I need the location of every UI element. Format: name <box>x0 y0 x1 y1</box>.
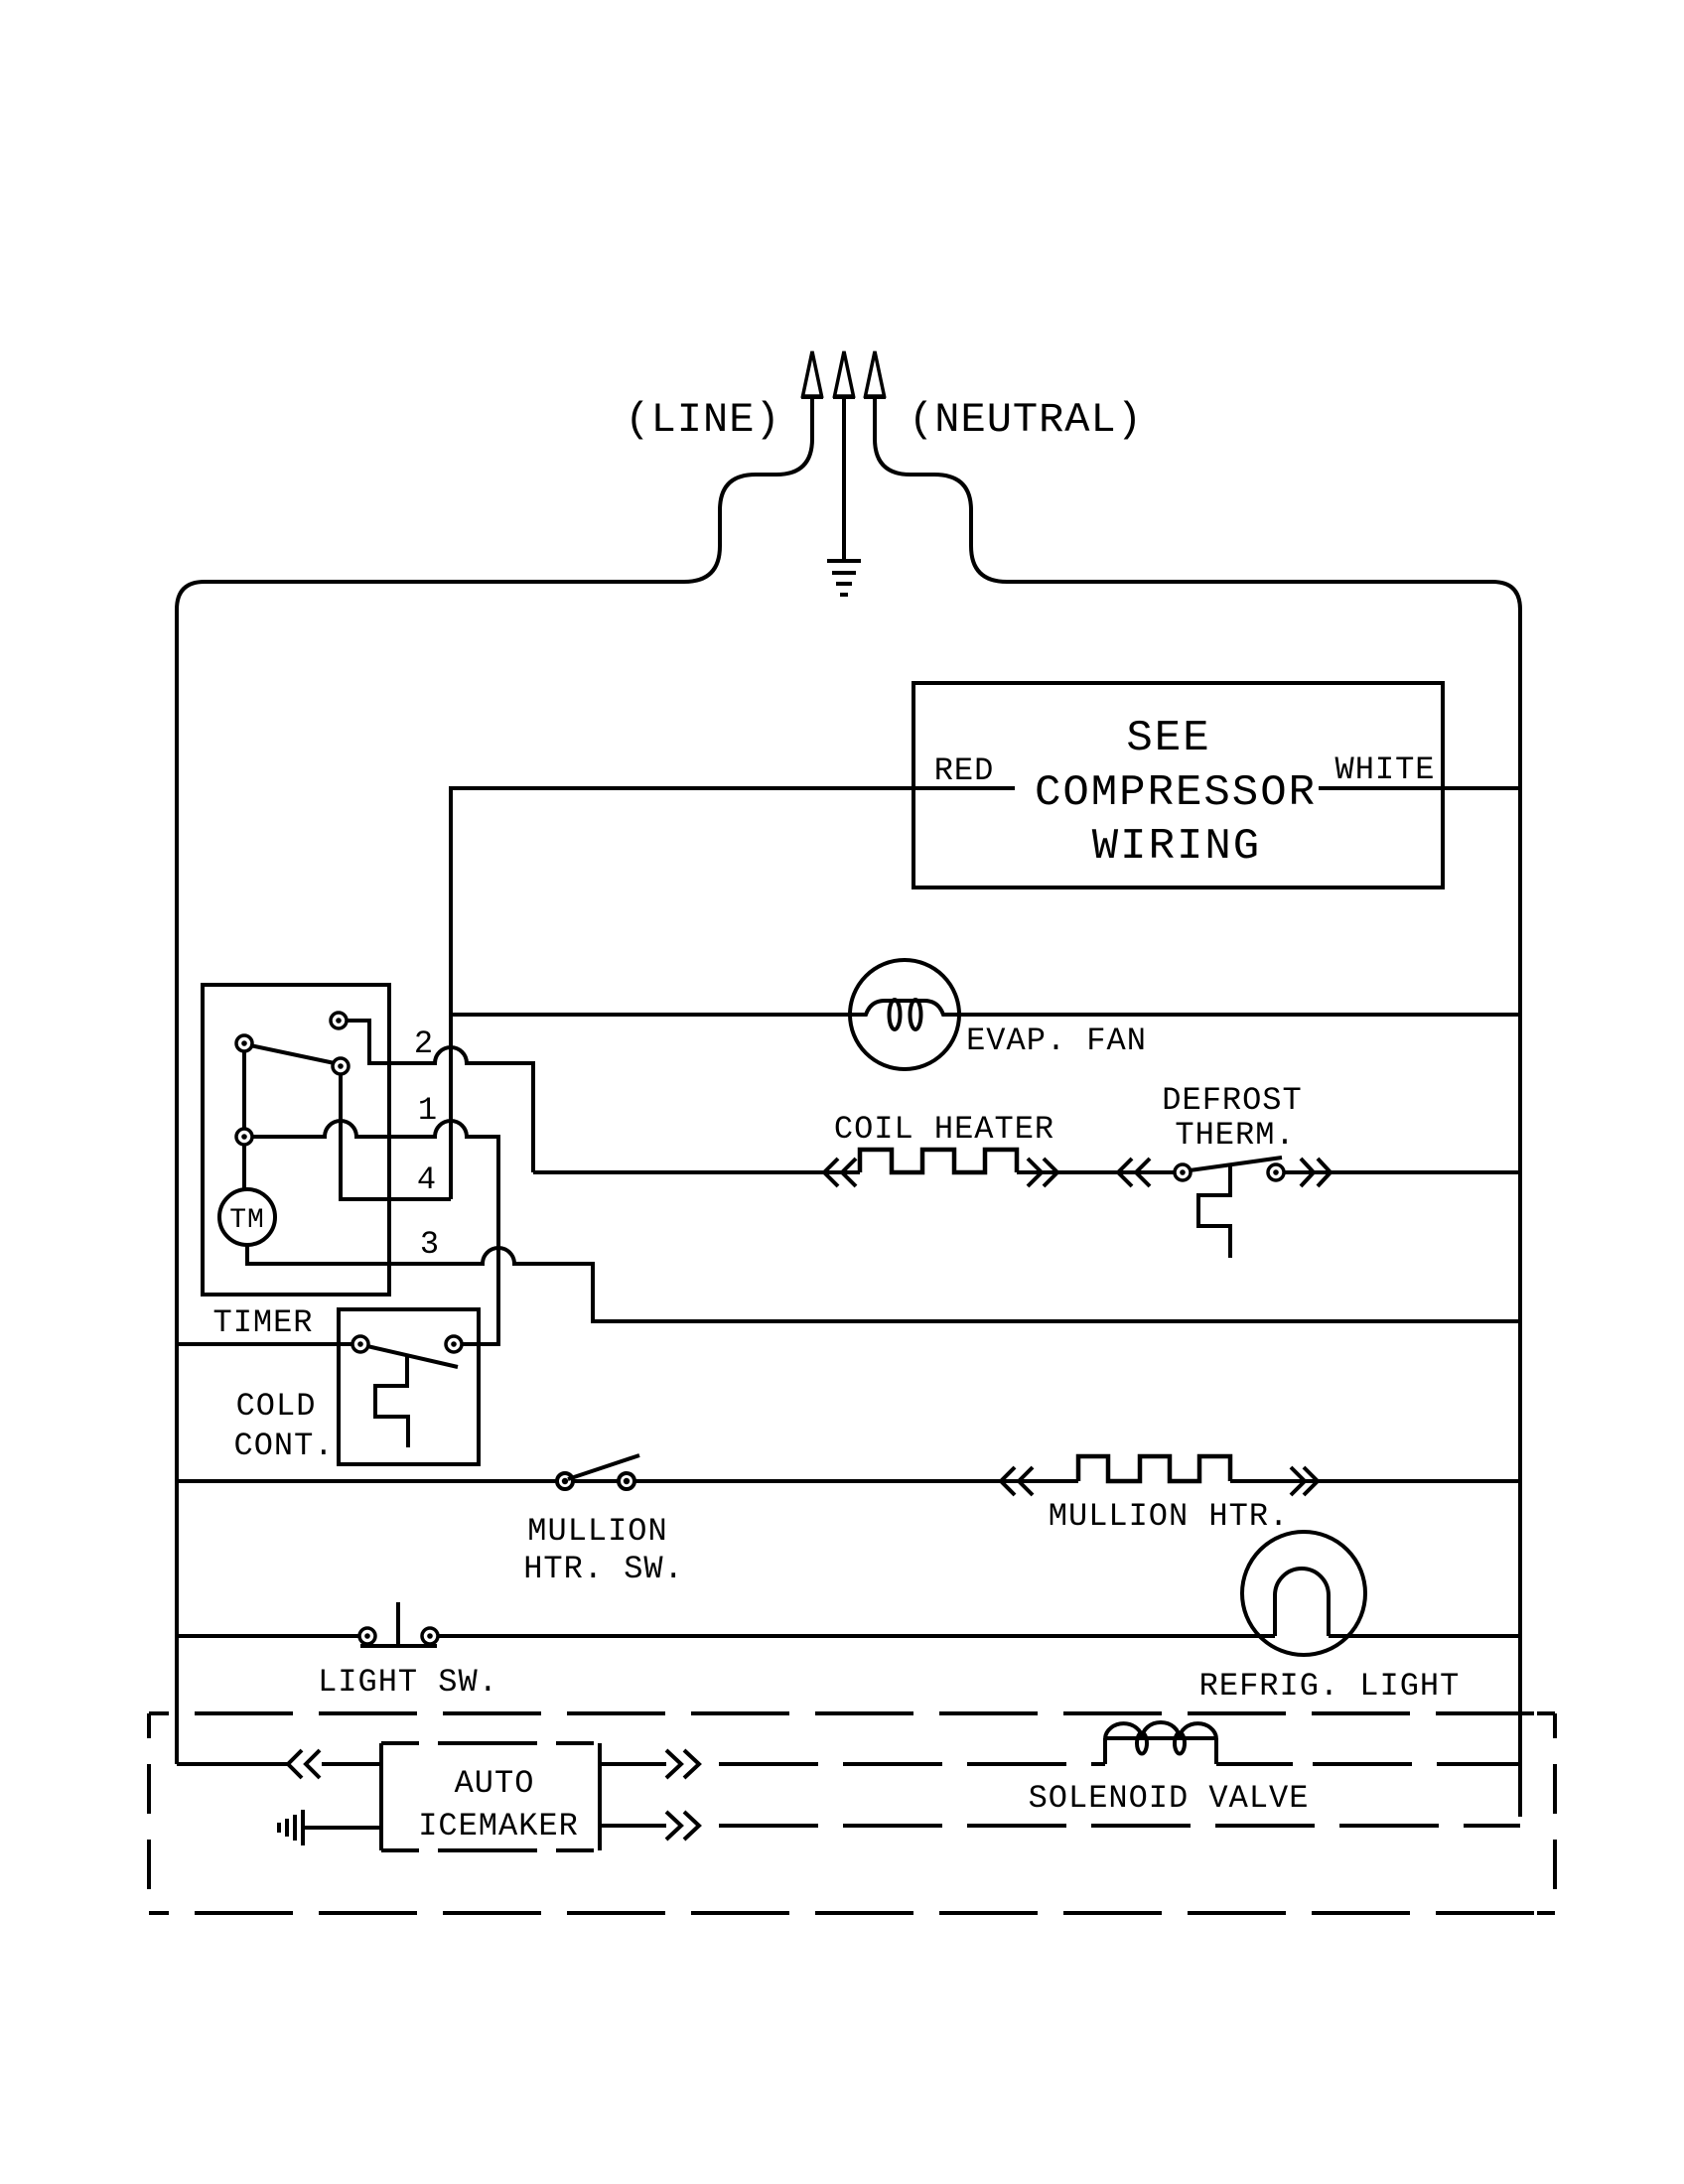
svg-text:3: 3 <box>420 1226 440 1263</box>
wire: defrost therm to right border <box>1284 1170 1520 1174</box>
svg-text:WHITE: WHITE <box>1334 751 1435 788</box>
svg-text:COMPRESSOR: COMPRESSOR <box>1035 768 1317 818</box>
wire: timer left terminals to timer motor <box>242 1051 246 1189</box>
svg-text:COLD: COLD <box>236 1388 317 1425</box>
mullion heater switch terminal right <box>619 1473 634 1489</box>
cold control terminal right <box>446 1336 462 1352</box>
timer switch arm <box>250 1045 335 1063</box>
connector chevrons >> after mullion heater <box>1291 1467 1318 1495</box>
defrost therm terminal left <box>1175 1164 1191 1180</box>
icemaker enclosure corner stubs <box>1537 1713 1555 1913</box>
timer motor TM <box>219 1189 275 1245</box>
wire: mullion heater row left <box>177 1479 1078 1483</box>
solenoid valve coil <box>1105 1722 1216 1764</box>
heater element MULLION HTR. <box>1078 1456 1230 1481</box>
svg-text:(NEUTRAL): (NEUTRAL) <box>909 396 1143 444</box>
timer terminal upper-left <box>236 1035 252 1051</box>
mullion heater switch terminal left <box>557 1473 573 1489</box>
wire: icemaker output row 1 <box>600 1762 666 1766</box>
wire: coil heater to defrost therm <box>1017 1170 1175 1174</box>
wire: timer middle terminal to pin 4 row <box>341 1074 451 1199</box>
wire: dashed output 2 to right border <box>699 1824 1520 1828</box>
light switch actuator <box>360 1602 437 1646</box>
wire: timer pin 3 to right border <box>247 1245 1520 1321</box>
cold control switch arm <box>367 1346 458 1367</box>
svg-text:WIRING: WIRING <box>1092 822 1261 872</box>
cold control actuator zigzag <box>375 1356 408 1447</box>
connector chevrons << before mullion heater <box>1001 1467 1033 1495</box>
svg-text:CONT.: CONT. <box>233 1428 334 1464</box>
timer box <box>203 985 389 1295</box>
timer terminal top <box>331 1013 347 1028</box>
defrost therm terminal right <box>1268 1164 1284 1180</box>
wire: icemaker output row 2 <box>600 1824 666 1828</box>
motor: EVAP. FAN <box>850 960 959 1069</box>
svg-text:ICEMAKER: ICEMAKER <box>418 1808 579 1844</box>
connector chevrons << before defrost therm <box>1118 1159 1150 1186</box>
wire: light row middle <box>438 1634 1275 1638</box>
timer terminal middle <box>333 1058 349 1074</box>
wire: cold control right terminal stub <box>462 1342 498 1346</box>
icemaker enclosure dashed bottom <box>149 1911 1555 1915</box>
wire: solenoid to right border <box>1216 1762 1293 1766</box>
svg-text:THERM.: THERM. <box>1175 1117 1295 1154</box>
wire: main border left side <box>177 582 684 1764</box>
plug prong ground pin <box>833 351 855 559</box>
mullion heater switch arm <box>568 1455 639 1479</box>
svg-text:LIGHT SW.: LIGHT SW. <box>318 1664 498 1701</box>
wire: WHITE lead from compressor to right border <box>1319 786 1520 790</box>
icemaker enclosure dashed left <box>147 1713 151 1913</box>
svg-text:COIL HEATER: COIL HEATER <box>834 1111 1054 1148</box>
defrost therm switch arm <box>1190 1158 1282 1170</box>
chassis ground at icemaker <box>279 1810 381 1845</box>
svg-text:TIMER: TIMER <box>212 1304 313 1341</box>
wire: cold control row from left border <box>177 1342 352 1346</box>
connector chevrons >> after defrost therm <box>1301 1159 1331 1186</box>
wire: coil heater row left <box>533 1170 860 1174</box>
svg-text:MULLION HTR.: MULLION HTR. <box>1049 1498 1289 1535</box>
svg-text:DEFROST: DEFROST <box>1162 1082 1302 1119</box>
svg-text:HTR. SW.: HTR. SW. <box>523 1551 684 1587</box>
wire: timer pin 2 <box>347 1021 533 1172</box>
svg-text:SEE: SEE <box>1126 714 1210 763</box>
light switch terminal left <box>359 1628 375 1644</box>
svg-text:SOLENOID VALVE: SOLENOID VALVE <box>1029 1780 1310 1817</box>
svg-text:(LINE): (LINE) <box>625 396 780 444</box>
svg-text:REFRIG. LIGHT: REFRIG. LIGHT <box>1199 1668 1461 1705</box>
svg-text:RED: RED <box>934 752 995 789</box>
icemaker enclosure dashed right <box>1553 1713 1557 1913</box>
svg-text:1: 1 <box>418 1092 438 1129</box>
svg-text:MULLION: MULLION <box>527 1513 667 1550</box>
svg-text:4: 4 <box>417 1161 437 1198</box>
lamp REFRIG. LIGHT <box>1242 1532 1365 1655</box>
svg-text:EVAP. FAN: EVAP. FAN <box>966 1023 1147 1059</box>
plug prong LINE <box>684 351 823 582</box>
compressor wiring box <box>913 683 1443 887</box>
auto icemaker box <box>381 1743 600 1850</box>
connector chevrons << before auto icemaker <box>288 1750 320 1778</box>
earth ground symbol <box>827 561 861 595</box>
wire: light row right <box>1329 1634 1520 1638</box>
timer terminal lower-left <box>236 1129 252 1145</box>
heater element COIL HEATER <box>860 1150 1017 1172</box>
svg-text:AUTO: AUTO <box>455 1765 535 1802</box>
svg-text:TM: TM <box>229 1205 265 1236</box>
connector chevrons << before coil heater <box>824 1159 856 1186</box>
connector chevrons >> after coil heater <box>1028 1159 1057 1186</box>
light switch terminal right <box>422 1628 438 1644</box>
wire: evaporator fan row <box>451 1013 1520 1017</box>
wire: timer pin 1 <box>252 1121 498 1344</box>
defrost therm actuator zigzag <box>1198 1163 1230 1258</box>
plug prong NEUTRAL <box>864 351 1007 582</box>
cold control terminal left <box>352 1336 368 1352</box>
cold control box <box>339 1309 479 1464</box>
wire: dashed to solenoid <box>699 1762 1105 1766</box>
wire: RED lead from compressor to timer pin 4 vertical <box>451 788 1015 1199</box>
svg-text:2: 2 <box>414 1025 434 1062</box>
connector chevrons >> icemaker output 1 <box>666 1750 699 1778</box>
connector chevrons >> icemaker output 2 <box>666 1812 699 1840</box>
icemaker enclosure dashed top <box>149 1711 1555 1715</box>
wire: main border right side <box>1007 582 1520 1817</box>
wire: mullion heater to right border <box>1230 1479 1520 1483</box>
wire: icemaker feed row <box>177 1762 288 1766</box>
wire: light row left <box>177 1634 359 1638</box>
wire: chevrons to icemaker box <box>322 1762 381 1766</box>
